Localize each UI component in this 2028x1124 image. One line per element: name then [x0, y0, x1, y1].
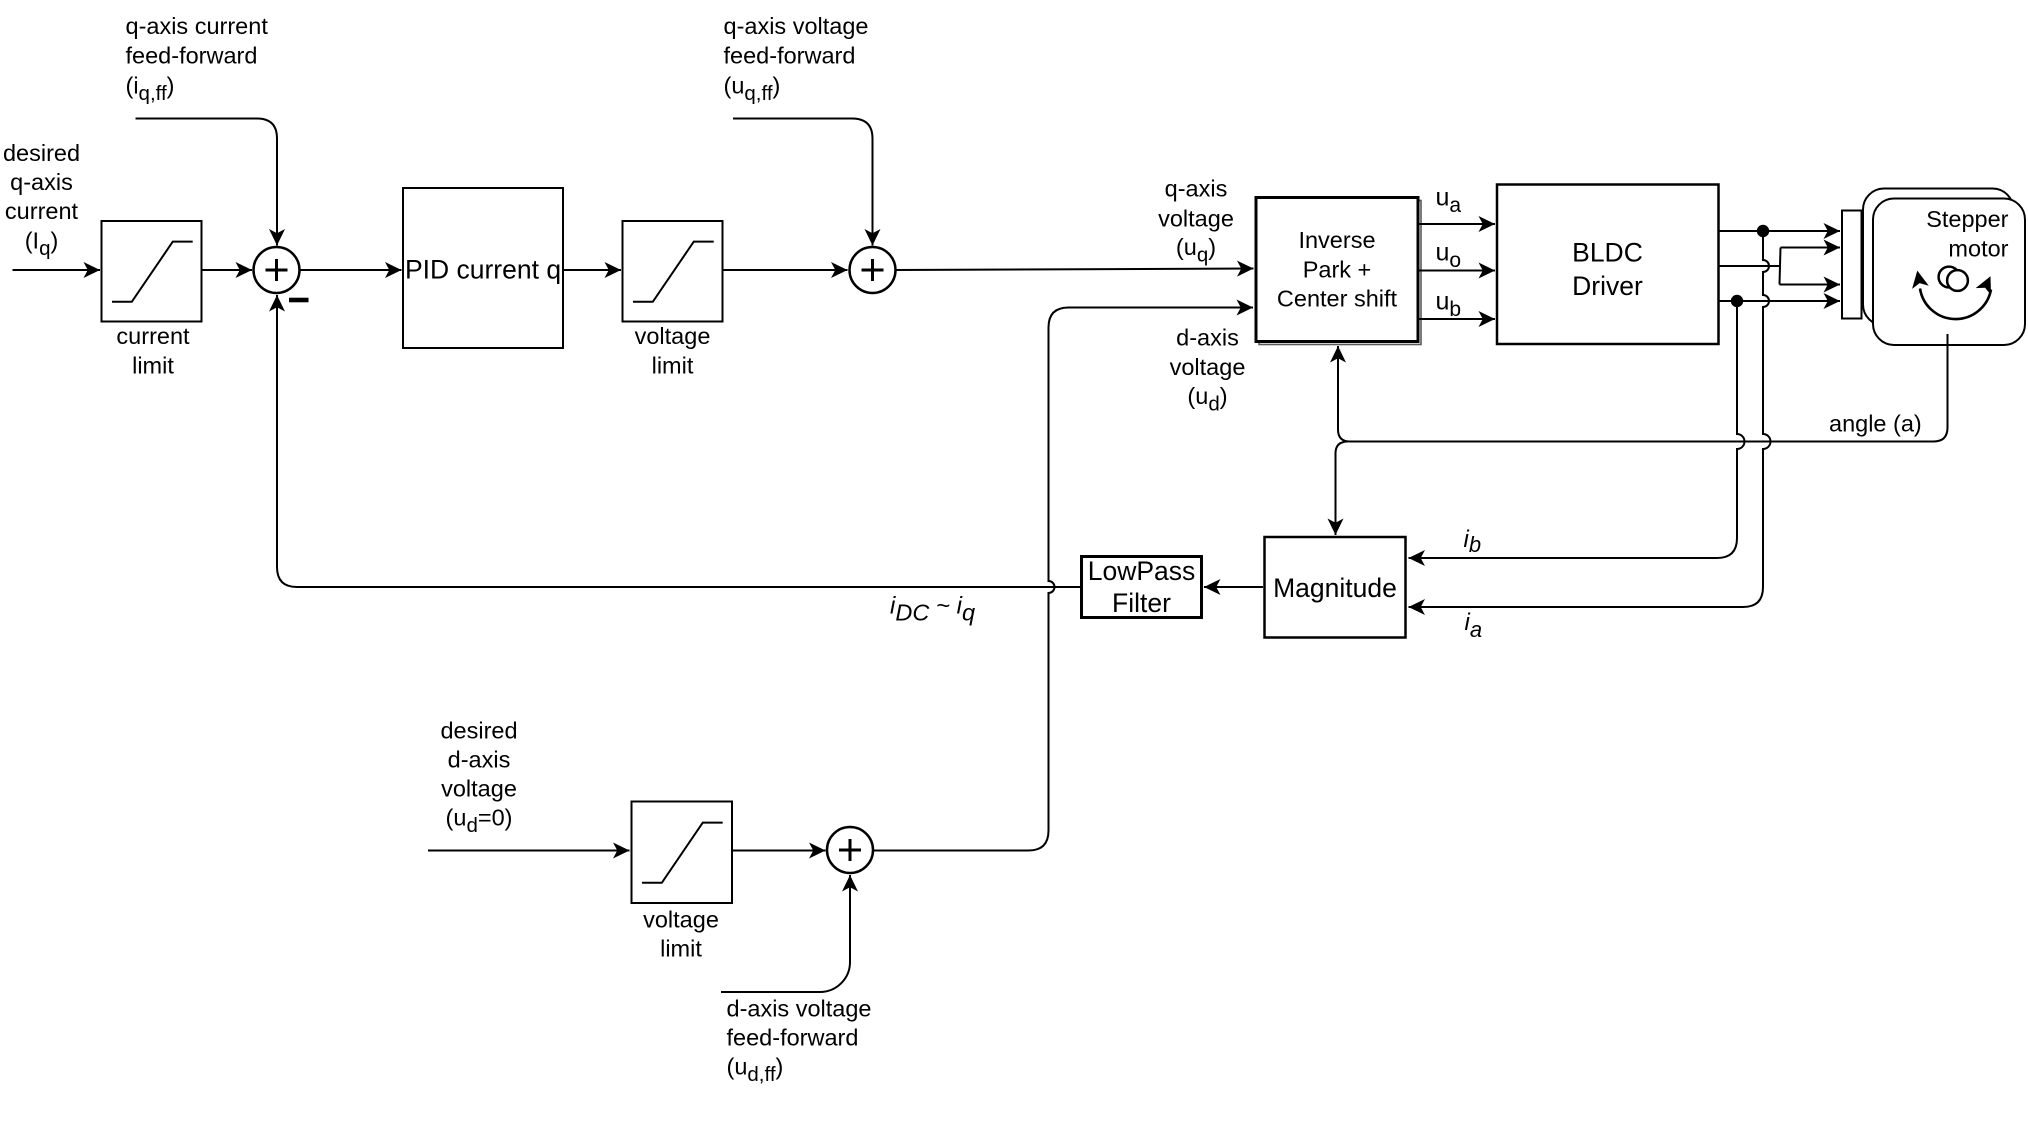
svg-text:Driver: Driver [1572, 271, 1643, 301]
label current limit [116, 323, 190, 379]
svg-text:motor: motor [1948, 236, 2008, 262]
block motor terminal strip [1842, 211, 1862, 319]
svg-text:q-axis current: q-axis current [126, 13, 269, 39]
icon motor shaft circles [1939, 267, 1968, 291]
wire u_d,ff feed-forward into S3 [721, 875, 850, 992]
svg-text:Stepper: Stepper [1926, 206, 2008, 232]
block PID current q [403, 188, 563, 348]
label Stepper motor [1926, 206, 2008, 261]
svg-text:limit: limit [652, 353, 694, 379]
wire center split lower into motor [1780, 284, 1841, 286]
wire center split vertical [1780, 248, 1781, 285]
wire u_b from Park to BLDC [1419, 318, 1496, 320]
svg-text:BLDC: BLDC [1572, 238, 1643, 268]
label d-axis voltage (u_d) [1170, 325, 1246, 416]
block stepper motor front plate [1873, 199, 2025, 346]
svg-text:Filter: Filter [1112, 588, 1171, 618]
svg-text:current: current [116, 323, 190, 349]
svg-text:angle (a): angle (a) [1829, 411, 1922, 437]
minus sign at S1 [289, 298, 309, 303]
block Magnitude [1265, 537, 1406, 638]
label LowPass Filter [1088, 556, 1196, 618]
svg-text:d-axis: d-axis [1176, 325, 1239, 351]
block voltage limit q (saturation) [623, 221, 723, 322]
label desired q-axis current (I_q) [3, 140, 80, 260]
wire input desired current into current limit [13, 269, 101, 271]
summing junction S2 [850, 247, 896, 293]
wire angle branch down into Magnitude [1336, 442, 1349, 536]
wire i_q,ff feed-forward into summing junction S1 [136, 119, 278, 246]
label voltage limit d [643, 907, 719, 962]
svg-text:feed-forward: feed-forward [724, 43, 856, 69]
block voltage limit d (saturation) [632, 802, 733, 904]
wire u_q,ff feed-forward into summing junction S2 [733, 119, 873, 246]
svg-text:voltage: voltage [1170, 354, 1246, 380]
wire desired d-axis voltage into voltage limit d [428, 850, 630, 852]
svg-text:PID current q: PID current q [405, 254, 561, 284]
svg-text:q-axis: q-axis [1165, 176, 1228, 202]
block BLDC Driver [1497, 185, 1719, 345]
svg-text:d-axis voltage: d-axis voltage [727, 996, 872, 1022]
wire BLDC phase b output to motor [1719, 300, 1841, 302]
wire u_o from Park to BLDC [1419, 270, 1496, 272]
block LowPass Filter [1082, 557, 1202, 618]
junction dot phase b [1731, 295, 1743, 307]
svg-text:voltage: voltage [635, 323, 711, 349]
wire d-axis voltage from S3 up into Inverse Park d input (with hop over feedback line) [873, 308, 1253, 851]
svg-text:q-axis: q-axis [10, 169, 73, 195]
wire current sense i_a from phase a dot down to Magnitude (with hops) [1409, 231, 1771, 607]
block stepper motor back plate [1863, 189, 2014, 326]
wire u_a from Park to BLDC [1419, 223, 1496, 225]
svg-text:limit: limit [660, 936, 702, 962]
label q-axis voltage feed-forward (u_q,ff) [724, 13, 869, 105]
wire BLDC phase a output to motor [1719, 230, 1841, 232]
wire center split upper into motor [1781, 247, 1841, 249]
wire voltage limit to summing junction S2 [723, 269, 848, 271]
label d-axis voltage feed-forward (u_d,ff) [727, 996, 872, 1087]
wire feedback from LowPass Filter to S1 minus input [277, 295, 1082, 587]
label BLDC Driver [1572, 238, 1643, 302]
svg-text:Inverse: Inverse [1298, 227, 1375, 253]
svg-text:d-axis: d-axis [448, 747, 511, 773]
summing junction S3 [827, 827, 873, 873]
svg-text:Park +: Park + [1303, 257, 1372, 283]
wire current sense i_b from phase b dot down to Magnitude (with hop) [1409, 301, 1745, 558]
svg-text:voltage: voltage [643, 907, 719, 933]
icon motor rotation arc [1909, 269, 1998, 319]
wire voltage limit d to summing junction S3 [732, 850, 826, 852]
svg-text:voltage: voltage [441, 776, 517, 802]
wire BLDC center output to motor split [1719, 265, 1780, 267]
svg-text:limit: limit [132, 353, 174, 379]
block Inverse Park + Center shift (with shadow) [1256, 198, 1421, 345]
label q-axis voltage (u_q) [1158, 176, 1234, 267]
label desired d-axis voltage (u_d=0) [440, 718, 517, 838]
wire S1 to PID [300, 269, 402, 271]
block current limit (saturation) [102, 221, 202, 322]
svg-text:voltage: voltage [1158, 206, 1234, 232]
svg-text:Center shift: Center shift [1277, 286, 1398, 312]
wire S2 to Inverse Park q input [896, 269, 1254, 271]
wire current limit to summing junction S1 [202, 269, 253, 271]
wire angle feedback from motor to Inverse Park (with corner) [1338, 334, 1948, 442]
junction dot phase a [1757, 225, 1769, 237]
svg-text:Magnitude: Magnitude [1273, 573, 1397, 603]
summing junction S1 [254, 247, 300, 293]
svg-text:feed-forward: feed-forward [126, 43, 258, 69]
svg-text:feed-forward: feed-forward [727, 1025, 859, 1051]
label voltage limit q [635, 323, 711, 379]
svg-text:LowPass: LowPass [1088, 556, 1196, 586]
svg-text:current: current [5, 198, 79, 224]
svg-text:desired: desired [440, 718, 517, 744]
wire Magnitude to LowPass Filter [1204, 586, 1263, 588]
label q-axis current feed-forward (i_q,ff) [126, 13, 269, 105]
label Inverse Park + Center shift [1277, 227, 1398, 312]
svg-text:q-axis voltage: q-axis voltage [724, 13, 869, 39]
wire PID to voltage limit [564, 269, 622, 271]
svg-text:desired: desired [3, 140, 80, 166]
